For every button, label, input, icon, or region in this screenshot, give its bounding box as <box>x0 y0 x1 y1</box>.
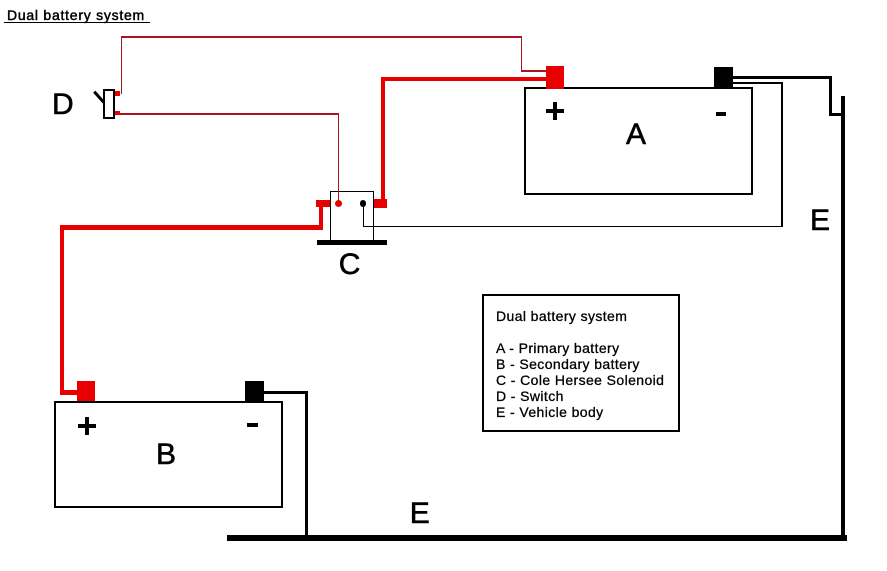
wire thin red: top horizontal run <box>121 36 522 38</box>
battery B red + terminal <box>77 381 95 401</box>
battery B minus sign <box>247 423 258 427</box>
wire thick red: horizontal run left <box>60 225 323 229</box>
battery B body <box>54 401 283 509</box>
wire thin black: vertical frame line right <box>781 82 783 227</box>
switch D label <box>52 90 74 120</box>
wire thin black: battery A negative to frame line <box>733 82 783 84</box>
wire thick red: solenoid left terminal down <box>319 205 323 230</box>
solenoid C left red terminal <box>316 200 330 208</box>
wire thin red: switch bottom terminal to solenoid coil <box>120 113 339 115</box>
solenoid C coil pin black dot <box>360 200 367 207</box>
battery A label <box>626 120 646 150</box>
vehicle body E label bottom <box>410 499 430 529</box>
switch D bottom red terminal <box>115 111 120 116</box>
wire thin red: switch top terminal up <box>121 36 123 94</box>
wire thick black: vehicle body E bottom run <box>227 535 847 541</box>
switch D top red terminal <box>115 91 120 96</box>
legend box <box>482 294 680 432</box>
title "Dual battery system" <box>7 7 145 23</box>
wire thick black: battery A negative lead <box>733 76 832 80</box>
wire thick red: horizontal run to battery A + <box>381 77 546 81</box>
solenoid C label <box>339 250 361 280</box>
title underline <box>4 22 150 24</box>
battery B black - terminal <box>245 381 264 401</box>
battery A body <box>524 87 753 195</box>
wire thick red: into battery B + terminal <box>60 390 79 395</box>
solenoid C body <box>330 191 374 241</box>
switch D body <box>103 89 115 119</box>
wire thin black: horizontal frame return to solenoid <box>363 226 783 228</box>
wire thin red: down toward battery A + <box>521 36 523 72</box>
solenoid C mounting bar <box>317 240 387 244</box>
wire thick black: battery B negative drop <box>305 391 309 538</box>
wire thick black: vehicle body E right vertical <box>841 96 845 541</box>
wire thick black: drop toward vehicle body <box>829 76 832 117</box>
switch D lever <box>90 87 110 107</box>
vehicle body E label right <box>810 206 830 236</box>
battery A black - terminal <box>714 67 733 89</box>
wire thin red: short jog to battery A + terminal <box>521 70 547 72</box>
solenoid C right red terminal <box>374 199 388 208</box>
battery B plus sign <box>0 0 1 1</box>
solenoid C coil pin red dot <box>335 200 342 207</box>
wire thick black: step joining vehicle body <box>829 113 844 117</box>
battery A plus sign <box>0 0 1 1</box>
wire thin black: solenoid coil ground pin drop <box>363 204 365 228</box>
battery A red + terminal <box>546 66 564 90</box>
wire thick black: battery B negative lead <box>264 391 309 395</box>
wire thick red: solenoid right terminal up <box>381 77 385 201</box>
wire thick red: vertical run down to battery B <box>60 225 64 395</box>
legend text <box>496 308 664 420</box>
battery B label <box>156 440 176 470</box>
battery A minus sign <box>716 112 726 116</box>
wire thin red: down into solenoid coil pin <box>338 113 340 204</box>
